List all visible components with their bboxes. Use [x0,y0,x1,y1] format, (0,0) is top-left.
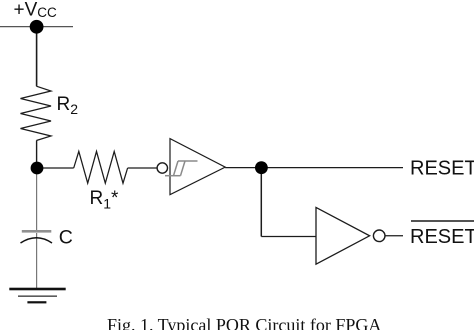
svg-text:Fig. 1. Typical POR Circuit fo: Fig. 1. Typical POR Circuit for FPGA [107,315,381,330]
svg-text:C: C [59,226,73,248]
svg-text:RESET: RESET [410,226,474,248]
svg-text:RESET: RESET [410,158,474,180]
